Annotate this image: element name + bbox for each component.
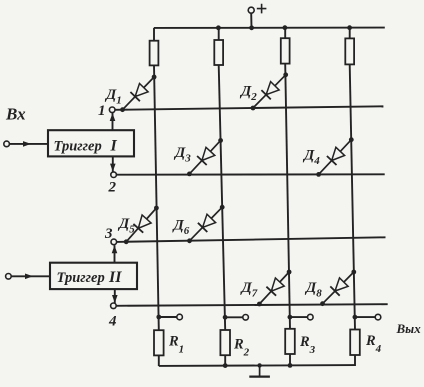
arrowhead at node 1 [110,113,116,121]
top load resistor column 2 [214,40,223,65]
output terminal column 3 [308,314,314,320]
junction output tap column 2 [223,315,228,320]
svg-text:Триггер: Триггер [57,270,105,286]
junction top bus / column 3 [283,25,288,30]
output terminal column 4 [375,314,381,320]
junction top bus / column 2 [216,25,221,30]
column 2 main vertical wire [219,65,226,330]
input wire to trigger I [9,143,48,145]
node 2 terminal [111,172,117,178]
diode D5 [124,206,159,245]
wire trigger I to node 1 [112,113,114,130]
arrowhead at node 2 [110,164,116,172]
column 3 wire: bus to top resistor [284,28,286,38]
output terminal column 1 [177,314,183,320]
column 4 wire: bus to top resistor [349,28,351,39]
svg-text:3: 3 [104,226,113,242]
diode D8 [320,270,356,307]
resistor R4 [350,330,360,356]
column 4 wire: R4 to ground bus [354,355,356,366]
node 4 terminal [111,303,117,309]
column 3 main vertical wire [285,64,290,329]
diode D3 [187,138,223,176]
column 1 main vertical wire [154,65,159,330]
plus supply terminal [248,7,254,13]
wire from + terminal to top bus [250,13,252,28]
arrowhead at node 3 [112,245,118,253]
top load resistor column 4 [345,38,354,64]
column 2 wire: bus to top resistor [218,28,220,40]
input arrowhead trigger II [25,274,33,280]
top load resistor column 3 [281,38,290,63]
diode D6 [187,205,225,243]
svg-text:Вх: Вх [5,105,26,124]
svg-text:Триггер: Триггер [54,139,102,155]
trigger II box [50,263,137,289]
node 1 terminal [109,107,115,113]
svg-text:Вых: Вых [396,321,422,336]
column 4 main vertical wire [350,64,355,329]
column 3 wire: R3 to ground bus [289,354,291,366]
node 3 terminal [111,239,117,245]
output tap wire column 2 [225,316,243,318]
svg-text:II: II [108,269,122,286]
svg-text:1: 1 [98,103,106,119]
svg-text:2: 2 [108,180,117,196]
wire trigger I to node 2 [112,157,114,172]
output terminal column 2 [243,315,249,321]
diode D1 [120,75,156,113]
junction top bus / + feed [249,25,254,30]
wire trigger II to node 3 [114,245,116,263]
junction ground bus / column 2 [223,363,228,368]
junction output tap column 3 [288,315,293,320]
top load resistor column 1 [150,41,159,66]
input terminal trigger II [6,274,12,280]
junction output tap column 4 [353,315,358,320]
svg-text:I: I [110,138,118,155]
resistor R1 [154,330,164,355]
resistor R2 [220,330,230,355]
row wire node 4 [116,304,388,306]
resistor R3 [285,329,295,354]
arrowhead at node 4 [112,295,118,303]
trigger I box [48,130,134,156]
plus sign label [257,4,267,14]
column 1 wire: R1 to ground bus [158,355,160,366]
junction top bus / column 4 [347,25,352,30]
column 1 wire: bus to top resistor [153,28,155,41]
input wire to trigger II [11,275,50,277]
output tap wire column 4 [355,316,375,318]
row wire node 2 [116,173,384,175]
output tap wire column 3 [290,316,307,318]
ground [249,363,270,376]
input Vx terminal [4,141,10,147]
svg-text:4: 4 [108,314,117,330]
junction ground bus / column 3 [288,363,293,368]
diode D4 [316,137,353,177]
junction output tap column 1 [156,315,161,320]
row wire node 1 [115,106,383,110]
top supply bus wire [154,27,385,29]
row wire node 3 [117,237,386,242]
wire trigger II to node 4 [114,289,116,303]
diode D2 [251,72,289,110]
output tap wire column 1 [159,316,177,318]
bottom ground bus wire [159,364,355,367]
input arrowhead trigger I [23,141,31,147]
column 2 wire: R2 to ground bus [224,355,226,366]
diode D7 [257,270,292,307]
